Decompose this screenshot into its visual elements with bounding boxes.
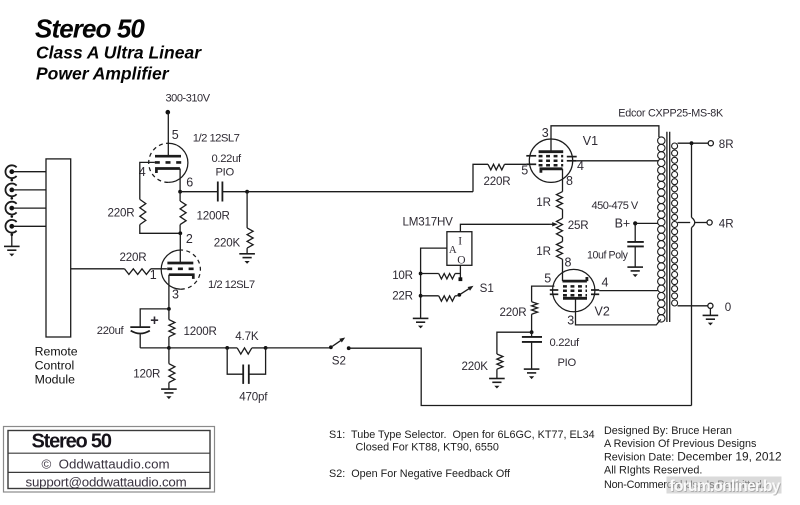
wire 120R to ground: [168, 383, 170, 389]
wire B+ down to cap: [634, 223, 636, 242]
node 2 junction: [178, 231, 182, 235]
wire jacks ground lead: [11, 233, 13, 247]
terminal 0: [708, 303, 713, 308]
wire 220uf to rail: [140, 347, 169, 349]
wire O pin down: [459, 265, 461, 278]
svg-text:A: A: [449, 244, 457, 256]
rail junction: [167, 346, 171, 350]
pin 5 ticks V2: [550, 289, 559, 291]
wire node6 to 1200R: [179, 192, 181, 201]
svg-text:Class A Ultra Linear: Class A Ultra Linear: [36, 43, 202, 63]
svg-text:4.7K: 4.7K: [235, 330, 259, 343]
svg-text:S2: Open For Negative Feedbac: S2: Open For Negative Feedback Off: [329, 468, 511, 480]
node B+: [633, 221, 637, 225]
svg-text:10R: 10R: [392, 269, 413, 282]
svg-text:I: I: [458, 236, 462, 248]
RCA input jack J2: [5, 184, 16, 197]
node 8R: [690, 141, 694, 145]
pin 4 wire V1 to UL tap: [577, 160, 659, 162]
svg-text:1200R: 1200R: [197, 210, 230, 223]
plate (lower driver): [167, 262, 193, 265]
wire: [562, 209, 564, 218]
ground (10uf): [627, 267, 643, 271]
svg-text:4: 4: [602, 275, 609, 289]
pin 5 ticks V1: [526, 155, 536, 157]
svg-text:Control: Control: [35, 359, 75, 373]
svg-text:1/2 12SL7: 1/2 12SL7: [193, 133, 240, 145]
ground (secondary 0): [703, 315, 719, 319]
wire chain to V2 cathode: [562, 259, 564, 281]
svg-text:4R: 4R: [719, 217, 734, 230]
triode upper 1/2 12SL7 envelope: [168, 143, 188, 182]
svg-text:22R: 22R: [392, 290, 413, 303]
wire 220R to junction: [531, 314, 533, 332]
RCA input jack J1: [5, 165, 16, 178]
wire 220R to node 2: [140, 225, 181, 234]
plate V2: [563, 297, 587, 300]
wire cathode to node 6: [179, 169, 181, 192]
svg-text:forum.onliner.by: forum.onliner.by: [670, 478, 781, 495]
wire module to 220R: [71, 268, 125, 270]
wire secondary vertical lower: [691, 228, 693, 406]
terminal 300-310V: [166, 110, 171, 115]
resistor 1R (V2 cathode): [557, 242, 563, 260]
terminal 4R: [707, 220, 712, 225]
svg-text:O: O: [457, 255, 465, 267]
svg-text:1/2 12SL7: 1/2 12SL7: [208, 279, 255, 291]
IC LM317HV body: [447, 232, 472, 266]
resistor 220R (lower driver grid): [125, 269, 151, 275]
svg-text:Edcor CXPP25-MS-8K: Edcor CXPP25-MS-8K: [618, 108, 724, 120]
svg-text:25R: 25R: [568, 219, 589, 232]
wire supply to upper driver plate: [167, 112, 169, 156]
svg-text:Stereo 50: Stereo 50: [32, 430, 112, 452]
transformer secondary winding: [672, 143, 678, 149]
pin 3 wire V1 plate to transformer: [551, 126, 659, 152]
capacitor 220uf (cathode bypass): [130, 326, 150, 328]
plate (upper driver): [155, 155, 181, 158]
svg-text:300-310V: 300-310V: [166, 93, 211, 105]
svg-text:5: 5: [544, 272, 551, 286]
svg-text:0: 0: [725, 301, 731, 314]
wire secondary common vertical: [691, 143, 693, 217]
svg-text:3: 3: [172, 288, 179, 302]
V2 grid network junction: [530, 330, 534, 334]
svg-text:1: 1: [150, 268, 157, 282]
cathode (lower driver): [169, 275, 193, 279]
wire 1200R to rail: [168, 337, 170, 348]
wire 1200R to node 2: [179, 225, 181, 234]
resistor 1R (V1 cathode): [557, 192, 563, 210]
wire 4R hop: [692, 217, 695, 227]
pin 4 wire V2 to UL tap: [599, 290, 657, 292]
svg-text:Closed For KT88, KT90, 6550: Closed For KT88, KT90, 6550: [356, 442, 499, 454]
node 22R-A: [419, 294, 423, 298]
wire: [252, 347, 266, 349]
cathode V2: [563, 277, 587, 281]
watermark forum.onliner.by: [667, 477, 782, 494]
svg-text:1R: 1R: [536, 196, 551, 209]
svg-text:Remote: Remote: [35, 345, 78, 359]
pin 4 ticks V2: [591, 289, 599, 291]
wire node3 to 1200R: [168, 309, 170, 320]
wire junction to 220K: [497, 332, 532, 354]
svg-text:220R: 220R: [484, 175, 511, 188]
wire node A to V1 grid corner: [247, 191, 473, 193]
node 3 junction: [167, 307, 171, 311]
svg-text:Stereo 50: Stereo 50: [35, 14, 145, 44]
svg-text:10uf Poly: 10uf Poly: [587, 250, 629, 262]
plate V1: [539, 150, 564, 153]
transformer core: [666, 132, 668, 322]
pin 3 wire V2 plate to transformer: [576, 298, 661, 325]
wire secondary 0 tap: [678, 305, 708, 307]
resistor 220K (V1 grid leak): [247, 228, 253, 248]
wire 220R to V1 pin5: [505, 163, 527, 165]
svg-text:Module: Module: [35, 373, 75, 387]
svg-text:8R: 8R: [719, 138, 734, 151]
svg-text:2: 2: [186, 232, 193, 246]
node 6 junction: [178, 190, 182, 194]
ground (LM317 ADJ): [413, 318, 429, 322]
wire jack to module: [13, 189, 46, 191]
wire 220K to ground: [246, 248, 248, 254]
wire cathode to node 3: [168, 275, 170, 309]
resistor 22R: [421, 295, 439, 297]
wire 220K to ground: [496, 369, 498, 378]
pin 5 wire V2: [532, 286, 555, 302]
svg-text:3: 3: [567, 313, 574, 327]
resistor 120R: [169, 364, 175, 383]
capacitor 0.22uf PIO (V2 grid): [531, 332, 533, 337]
node 10R-A: [419, 272, 423, 276]
svg-text:5: 5: [521, 163, 528, 177]
grid rows V2: [563, 285, 587, 288]
pin 4 ticks V1: [567, 156, 577, 158]
ground (0.22uf V2): [524, 369, 540, 373]
svg-text:All RIghts Reserved.: All RIghts Reserved.: [604, 465, 702, 477]
resistor 220R (V2 grid stopper): [532, 302, 538, 315]
resistor 220R (upper driver grid): [140, 199, 146, 224]
svg-text:220uf: 220uf: [97, 325, 125, 337]
node A junction: [245, 190, 249, 194]
wire 220R to grid pin1: [151, 268, 167, 270]
svg-text:5: 5: [172, 128, 179, 142]
wire cap to node A: [222, 191, 247, 193]
svg-text:0.22uf: 0.22uf: [550, 337, 580, 349]
capacitor 470pf (feedback bypass): [227, 348, 243, 374]
svg-text:V2: V2: [595, 304, 610, 318]
potentiometer 25R: [557, 218, 563, 237]
wire jack to module: [13, 207, 46, 209]
resistor 220K (V2 leak): [497, 354, 503, 369]
svg-text:4: 4: [577, 159, 584, 173]
ground (120R): [161, 389, 177, 393]
svg-text:220K: 220K: [462, 360, 489, 373]
wire: [227, 347, 237, 349]
ground (220K V1 leak): [239, 254, 255, 258]
resistor 10R: [421, 273, 439, 275]
wire jack to module: [13, 171, 46, 173]
wire: [562, 237, 564, 242]
svg-text:S2: S2: [332, 355, 346, 368]
wire cap to ground: [634, 246, 636, 267]
svg-text:support@oddwattaudio.com: support@oddwattaudio.com: [26, 475, 187, 490]
svg-text:1R: 1R: [536, 245, 551, 258]
wire 0 to ground: [709, 308, 711, 315]
switch S2: [329, 345, 333, 349]
capacitor 10uf Poly: [627, 241, 644, 243]
RCA input jack J3: [5, 202, 16, 215]
svg-text:LM317HV: LM317HV: [403, 215, 454, 228]
grid (lower driver): [167, 267, 193, 270]
ground (220K V2): [489, 379, 505, 383]
RCA input jack J4: [5, 220, 16, 233]
svg-text:S1: S1: [480, 282, 494, 295]
svg-text:8: 8: [566, 174, 573, 188]
grid rows V1: [539, 155, 564, 158]
svg-text:© Oddwattaudio.com: © Oddwattaudio.com: [42, 456, 170, 471]
svg-text:1200R: 1200R: [184, 325, 217, 338]
wire V1 cathode down: [562, 169, 564, 192]
wire secondary 8R tap: [678, 142, 709, 144]
wire S2 to feedback run: [349, 348, 692, 405]
pentode V2 envelope: [553, 269, 595, 311]
svg-text:8: 8: [565, 256, 572, 270]
title box frame: [4, 427, 215, 493]
resistor 220R (V1 grid stopper): [488, 164, 505, 170]
svg-text:0.22uf: 0.22uf: [212, 153, 242, 165]
svg-text:120R: 120R: [133, 368, 160, 381]
S1 fixed contact: [459, 277, 463, 281]
svg-text:220K: 220K: [214, 236, 241, 249]
wire node6 to cap: [180, 191, 218, 193]
wire coupling to V1 grid: [473, 164, 488, 191]
svg-text:6: 6: [186, 176, 193, 190]
svg-text:220R: 220R: [120, 251, 147, 264]
svg-text:PIO: PIO: [216, 167, 235, 179]
resistor 1200R (lower): [169, 320, 175, 337]
wire I pin to 25R wiper: [460, 224, 549, 231]
wire pin 2 plate: [179, 233, 181, 263]
svg-text:450-475 V: 450-475 V: [592, 200, 639, 212]
svg-text:Designed By: Bruce Heran: Designed By: Bruce Heran: [604, 425, 732, 437]
svg-text:3: 3: [542, 126, 549, 140]
wire A pin to ground rail: [421, 248, 447, 318]
node 4.7K right: [264, 346, 268, 350]
title box separators: [8, 452, 210, 454]
cathode (upper driver): [156, 169, 180, 174]
wire rail to 4.7K: [169, 347, 227, 349]
svg-text:V1: V1: [583, 134, 598, 148]
wire B+ to primary CT: [635, 222, 657, 224]
pentode V1 envelope: [529, 139, 572, 182]
svg-text:S1: Tube Type Selector. Open: S1: Tube Type Selector. Open for 6L6GC, …: [329, 429, 595, 441]
grid (upper driver): [155, 161, 181, 164]
svg-text:A Revision Of Previous Designs: A Revision Of Previous Designs: [604, 438, 757, 450]
svg-text:PIO: PIO: [558, 357, 577, 369]
svg-text:Revision Date: December 19, 20: Revision Date: December 19, 2012: [604, 449, 782, 463]
terminal 8R: [708, 141, 713, 146]
wire nodeA to 220K: [246, 192, 248, 228]
cathode V1: [541, 169, 563, 173]
wire rail to 120R: [168, 348, 170, 364]
resistor 1200R (upper): [180, 201, 186, 225]
wire jack to module: [13, 225, 46, 227]
svg-text:+: +: [150, 313, 158, 329]
svg-text:Power Amplifier: Power Amplifier: [36, 64, 170, 84]
wire secondary 4R tap: [678, 222, 691, 224]
svg-text:220R: 220R: [500, 306, 527, 319]
wire to S2: [266, 347, 331, 349]
svg-text:B+: B+: [615, 216, 631, 230]
svg-text:220R: 220R: [108, 206, 135, 219]
capacitor 0.22uf PIO (driver coupling): [217, 182, 219, 202]
resistor 4.7K: [237, 348, 252, 354]
wire grid pin 4 to left: [140, 162, 155, 199]
wire node3 to 220uf: [140, 309, 169, 327]
ground (input jacks): [4, 246, 20, 250]
transformer primary winding: [658, 137, 665, 144]
triode lower 1/2 12SL7 envelope: [161, 250, 181, 289]
node 4.7K left: [225, 346, 229, 350]
remote control module block: [46, 159, 71, 337]
switch S1: [457, 293, 461, 297]
svg-text:470pf: 470pf: [239, 390, 268, 403]
